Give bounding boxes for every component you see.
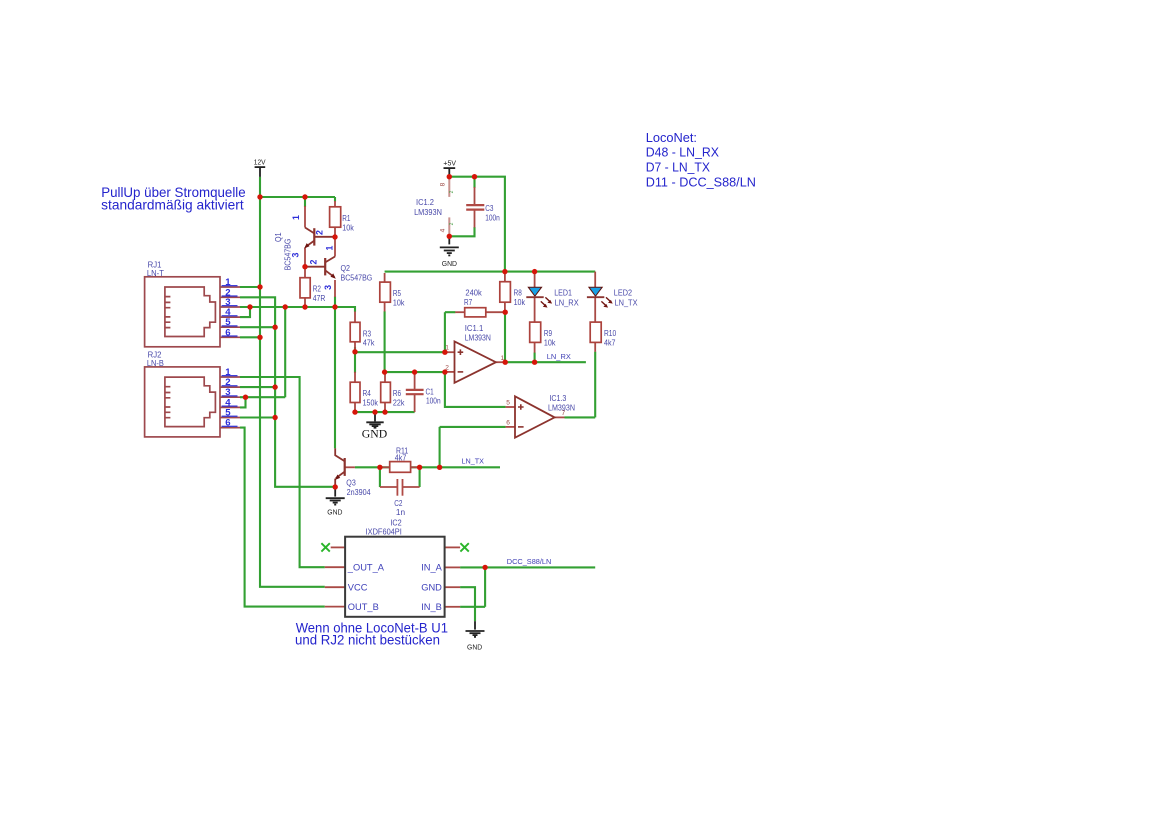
svg-text:12V: 12V (254, 158, 267, 167)
svg-text:10k: 10k (514, 297, 526, 307)
svg-text:R7: R7 (464, 297, 472, 307)
svg-text:BC547BG: BC547BG (341, 272, 373, 282)
svg-text:LM393N: LM393N (465, 332, 491, 342)
svg-text:10k: 10k (342, 223, 354, 233)
svg-text:LocoNet:: LocoNet: (646, 130, 697, 145)
svg-text:2n3904: 2n3904 (347, 487, 371, 497)
svg-text:3: 3 (291, 252, 301, 257)
svg-text:LN_RX: LN_RX (555, 297, 580, 307)
svg-text:LN-T: LN-T (147, 268, 164, 278)
svg-text:2: 2 (308, 259, 318, 264)
svg-text:LM393N: LM393N (414, 207, 442, 217)
svg-text:und RJ2 nicht bestücken: und RJ2 nicht bestücken (295, 633, 440, 648)
svg-text:4: 4 (440, 228, 447, 232)
svg-text:LN_RX: LN_RX (547, 352, 571, 361)
svg-text:3: 3 (323, 285, 333, 290)
svg-text:2: 2 (449, 190, 455, 193)
svg-text:GND: GND (421, 582, 442, 592)
svg-text:100n: 100n (485, 213, 500, 223)
svg-text:LN_TX: LN_TX (462, 457, 485, 466)
svg-text:1n: 1n (396, 507, 406, 517)
svg-text:D48 - LN_RX: D48 - LN_RX (646, 145, 720, 160)
svg-text:6: 6 (506, 419, 510, 426)
svg-text:7: 7 (562, 410, 566, 417)
svg-text:GND: GND (442, 259, 458, 268)
svg-text:1: 1 (324, 245, 334, 250)
svg-text:22k: 22k (393, 398, 405, 408)
svg-text:2: 2 (445, 365, 449, 372)
svg-text:47k: 47k (363, 338, 375, 348)
svg-text:6: 6 (225, 327, 230, 338)
svg-text:100n: 100n (426, 395, 441, 405)
svg-text:LN_TX: LN_TX (615, 297, 638, 307)
svg-text:D7 - LN_TX: D7 - LN_TX (646, 159, 711, 174)
svg-text:+5V: +5V (443, 159, 456, 168)
svg-text:6: 6 (225, 418, 230, 429)
svg-text:4k7: 4k7 (604, 338, 616, 348)
svg-text:LN-B: LN-B (147, 358, 164, 368)
svg-text:GND: GND (327, 508, 343, 517)
svg-text:IC1.3: IC1.3 (549, 393, 566, 403)
svg-text:standardmäßig aktiviert: standardmäßig aktiviert (101, 198, 244, 213)
svg-text:VCC: VCC (348, 582, 368, 592)
svg-text:2: 2 (315, 230, 325, 235)
svg-text:LED1: LED1 (554, 287, 572, 297)
svg-text:IXDF604PI: IXDF604PI (366, 526, 402, 536)
svg-text:OUT_B: OUT_B (348, 602, 379, 612)
svg-text:IC1.2: IC1.2 (416, 197, 434, 207)
svg-text:4k7: 4k7 (395, 453, 407, 463)
svg-text:10k: 10k (544, 338, 556, 348)
svg-text:1: 1 (291, 215, 301, 220)
svg-text:5: 5 (506, 400, 510, 407)
svg-text:47R: 47R (313, 293, 326, 303)
svg-text:IN_A: IN_A (421, 563, 442, 573)
svg-text:8: 8 (440, 182, 447, 186)
svg-text:1: 1 (501, 355, 505, 362)
svg-text:240k: 240k (465, 287, 482, 297)
svg-text:Q3: Q3 (346, 478, 356, 488)
svg-text:IN_B: IN_B (421, 602, 442, 612)
svg-text:10k: 10k (393, 298, 405, 308)
svg-text:D11 - DCC_S88/LN: D11 - DCC_S88/LN (646, 175, 756, 190)
svg-text:2: 2 (449, 222, 455, 225)
svg-text:1: 1 (445, 345, 449, 352)
svg-text:GND: GND (362, 427, 388, 441)
svg-text:DCC_S88/LN: DCC_S88/LN (507, 557, 552, 566)
svg-text:LED2: LED2 (614, 287, 633, 297)
svg-text:GND: GND (467, 642, 483, 651)
svg-text:_OUT_A: _OUT_A (347, 563, 385, 573)
svg-text:150k: 150k (363, 398, 379, 408)
svg-text:C3: C3 (485, 203, 493, 213)
